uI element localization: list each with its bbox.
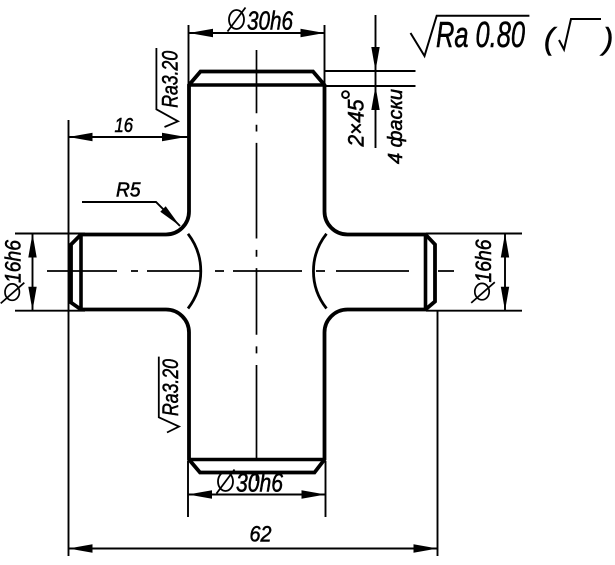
svg-text:4 фаски: 4 фаски — [385, 89, 407, 164]
svg-text:2×45: 2×45 — [344, 99, 369, 148]
svg-text:R5: R5 — [116, 180, 141, 202]
svg-text:Ra3.20: Ra3.20 — [158, 358, 183, 416]
svg-text:16: 16 — [115, 115, 134, 137]
svg-text:Ra3.20: Ra3.20 — [157, 50, 182, 108]
svg-text:30h6: 30h6 — [247, 6, 293, 36]
svg-text:16h6: 16h6 — [1, 239, 26, 283]
svg-text:Ra 0.80: Ra 0.80 — [436, 14, 525, 55]
svg-text:16h6: 16h6 — [471, 239, 496, 283]
svg-text:62: 62 — [250, 522, 272, 547]
svg-text:30h6: 30h6 — [236, 468, 283, 498]
